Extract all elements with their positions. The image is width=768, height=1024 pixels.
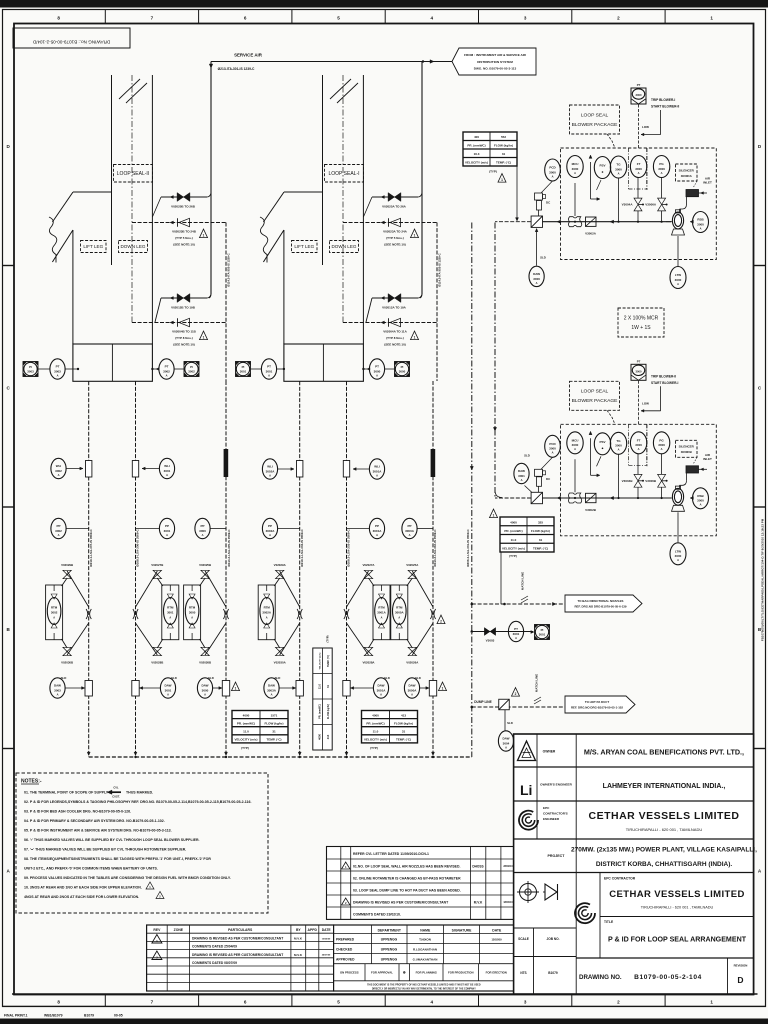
rotated line tag on bypass line I xyxy=(431,449,436,477)
svg-text:INLET: INLET xyxy=(703,181,712,185)
svg-text:SLD: SLD xyxy=(61,676,67,680)
svg-text:3001: 3001 xyxy=(513,632,520,636)
DAW 3001 sample connection xyxy=(132,676,177,696)
aeration line 2 loop seal I xyxy=(343,221,437,224)
svg-text:V02025B TO 26B: V02025B TO 26B xyxy=(171,205,196,209)
svg-text:3000: 3000 xyxy=(572,443,579,447)
svg-text:PROJECT: PROJECT xyxy=(548,854,566,858)
svg-text:3: 3 xyxy=(524,1000,527,1005)
svg-text:FOR PLANNING: FOR PLANNING xyxy=(416,971,437,975)
svg-text:V02023A TO 24A: V02023A TO 24A xyxy=(383,230,408,234)
dump line strainer xyxy=(499,699,510,710)
instrument PP 3000 xyxy=(195,518,210,538)
instrument DAW 3000A xyxy=(404,678,419,698)
svg-text:PSV: PSV xyxy=(599,440,605,444)
svg-text:REVISION: REVISION xyxy=(734,964,748,968)
air supply drop dashed II xyxy=(226,223,231,382)
transmitter sub-box 1 xyxy=(629,148,647,189)
svg-text:TO BAG DIRECTIONAL NOZZLES: TO BAG DIRECTIONAL NOZZLES xyxy=(578,599,624,603)
svg-text:TEMP. (°C): TEMP. (°C) xyxy=(533,547,548,551)
svg-text:V3004B: V3004B xyxy=(622,479,634,483)
flag note 1 row2 II xyxy=(200,229,208,238)
svg-text:COMMENTS DATED 08/07/09: COMMENTS DATED 08/07/09 xyxy=(192,961,237,965)
svg-text:FINAL PRINT.1: FINAL PRINT.1 xyxy=(4,1014,28,1018)
right ruler band xyxy=(754,144,766,874)
instrument FT 3000 2 xyxy=(630,432,646,454)
svg-text:WB1/B1079: WB1/B1079 xyxy=(44,1014,63,1018)
svg-text:01.NO. OF LOOP SEAL WALL AIR N: 01.NO. OF LOOP SEAL WALL AIR NOZZLES HAS… xyxy=(353,864,460,868)
svg-text:SLD: SLD xyxy=(507,721,513,725)
blower level line 1 xyxy=(677,236,679,266)
svg-text:(SEE NOTE:10): (SEE NOTE:10) xyxy=(384,343,406,347)
svg-text:4000: 4000 xyxy=(372,713,379,717)
valve label row1 I xyxy=(382,205,407,209)
flag note 1 at DAW 3000A xyxy=(439,682,447,691)
svg-text:V02030A: V02030A xyxy=(274,661,287,665)
svg-text:08. THE ITEMS/EQUIPMENTS/INSTR: 08. THE ITEMS/EQUIPMENTS/INSTRUMENTS SHA… xyxy=(24,857,211,861)
blower package 2 label leader xyxy=(607,410,615,424)
instrument RSB 3000 2 xyxy=(693,488,709,509)
aeration line 4 loop seal II xyxy=(132,321,226,324)
left ruler band xyxy=(3,144,15,874)
svg-text:PT: PT xyxy=(267,365,271,369)
svg-text:DAW: DAW xyxy=(165,684,172,688)
svg-text:07. '▪▪' THUS MARKED VALVES W: 07. '▪▪' THUS MARKED VALVES WILL BE SUPP… xyxy=(24,848,186,852)
svg-text:(TYP 5 Nos.): (TYP 5 Nos.) xyxy=(386,236,404,240)
svg-text:SERVICE AIR: SERVICE AIR xyxy=(234,53,263,58)
svg-text:ENGINEER: ENGINEER xyxy=(543,817,560,821)
svg-text:3: 3 xyxy=(524,16,527,21)
right margin plot stamp text xyxy=(761,518,765,641)
instrument PI 3003 xyxy=(23,362,38,377)
svg-text:A: A xyxy=(552,174,554,178)
process data table rotated xyxy=(313,635,332,750)
rotameter piping RTM 3001A xyxy=(347,563,376,665)
svg-text:5: 5 xyxy=(337,16,340,21)
svg-text:A: A xyxy=(57,373,59,377)
svg-text:TIRUCHIRAPALLI - 620 001 , TAM: TIRUCHIRAPALLI - 620 001 , TAMILNADU xyxy=(641,906,714,910)
svg-text:A: A xyxy=(618,171,620,175)
svg-text:SLD: SLD xyxy=(524,454,530,458)
svg-text:DAW: DAW xyxy=(409,684,416,688)
svg-text:TIRUCHIRAPALLI - 620 001 , TAM: TIRUCHIRAPALLI - 620 001 , TAMILNADU xyxy=(626,827,703,832)
transmitter sub-box 2 xyxy=(629,424,647,465)
svg-text:(TYP): (TYP) xyxy=(370,746,378,750)
svg-text:V02029B: V02029B xyxy=(61,563,73,567)
drawing number box top-left (rotated) xyxy=(13,28,130,48)
svg-text:PI: PI xyxy=(541,628,544,632)
WLI 3001 connection xyxy=(132,461,159,478)
svg-text:PI: PI xyxy=(190,365,193,369)
lift leg inclined pipe II xyxy=(49,192,112,344)
svg-text:BLOWER PACKAGE: BLOWER PACKAGE xyxy=(572,122,619,128)
PP 3002A connection xyxy=(278,528,300,530)
svg-text:Ø219.1-LSA-304-IS 3569-C: Ø219.1-LSA-304-IS 3569-C xyxy=(300,528,304,566)
svg-text:B1079: B1079 xyxy=(548,971,558,975)
seal air takeoff line xyxy=(471,630,534,633)
svg-text:V02012A TO 19A: V02012A TO 19A xyxy=(382,306,407,310)
air supply drop dashed I xyxy=(437,223,442,382)
svg-text:UPPENGG: UPPENGG xyxy=(381,938,398,942)
top black scan band xyxy=(0,0,768,8)
svg-text:V02029A: V02029A xyxy=(274,563,287,567)
svg-text:FLOW (kg/hr): FLOW (kg/hr) xyxy=(494,144,513,148)
svg-text:Li: Li xyxy=(520,782,532,798)
butterfly valve V3006A xyxy=(645,198,667,211)
air supply drop solid II xyxy=(209,62,211,299)
svg-text:M.V.K: M.V.K xyxy=(474,900,483,904)
loop seal I riser pipe walls xyxy=(323,75,364,344)
flag note 1 row4 I xyxy=(411,331,419,340)
svg-text:V02025B: V02025B xyxy=(199,563,211,567)
instrument DAW package 1 xyxy=(529,266,544,286)
svg-text:TEMP. (°C): TEMP. (°C) xyxy=(327,655,330,667)
svg-text:DRAWING IS REVISED AS PER CUST: DRAWING IS REVISED AS PER CUSTOMER/CONSU… xyxy=(192,953,283,957)
svg-text:LOOP SEAL: LOOP SEAL xyxy=(581,112,609,118)
process data table blower 2 xyxy=(500,517,554,558)
air inlet label 1 xyxy=(703,177,712,185)
rotameter assembly RTM 3002 xyxy=(46,585,63,640)
aeration line 3 loop seal II xyxy=(155,294,211,322)
svg-text:TEMP. (°C): TEMP. (°C) xyxy=(267,738,282,742)
svg-text:CHECKED: CHECKED xyxy=(336,948,353,952)
isolation valve V02025B xyxy=(201,570,209,578)
svg-text:CVL: CVL xyxy=(113,786,119,790)
svg-text:COMMENTS DATED 23/02/10.: COMMENTS DATED 23/02/10. xyxy=(353,912,401,916)
svg-text:TG: TG xyxy=(616,163,621,167)
svg-text:Ø114.3-ITA-302-IS 1239-C: Ø114.3-ITA-302-IS 1239-C xyxy=(438,253,442,286)
instrument DAW 3000 xyxy=(197,678,212,698)
svg-text:3000: 3000 xyxy=(636,93,642,97)
approval table xyxy=(334,925,514,991)
epc contractor row xyxy=(604,877,745,910)
svg-text:A: A xyxy=(376,533,378,537)
blower 2 xyxy=(666,486,693,511)
svg-text:FROM : INSTRUMENT AIR & SERVIC: FROM : INSTRUMENT AIR & SERVICE AIR xyxy=(464,53,527,57)
instrument DAW 3003 xyxy=(50,678,65,698)
svg-text:A: A xyxy=(661,171,663,175)
svg-text:PCD: PCD xyxy=(549,442,556,446)
svg-text:VELOCITY (m/s): VELOCITY (m/s) xyxy=(320,652,322,669)
svg-text:3002A: 3002A xyxy=(262,611,271,615)
instrument TG 3000 2 xyxy=(610,432,626,454)
svg-text:24/07/09: 24/07/09 xyxy=(322,954,331,957)
svg-text:RTM: RTM xyxy=(264,606,271,610)
rotameter assembly RTM 3000 xyxy=(184,585,201,640)
svg-text:DIRECTLY OR INDIRECTLY IN ANY: DIRECTLY OR INDIRECTLY IN ANY WAY DETRIM… xyxy=(372,987,476,990)
svg-text:LOOP SEAL-I: LOOP SEAL-I xyxy=(328,171,359,177)
svg-text:1: 1 xyxy=(493,514,495,518)
svg-text:VELOCITY (m/s): VELOCITY (m/s) xyxy=(235,738,258,742)
instrument PT 3001 right xyxy=(508,621,523,641)
blower interconnection riser xyxy=(493,223,502,498)
trip blower note 1 xyxy=(641,98,679,136)
svg-text:PP: PP xyxy=(268,524,272,528)
svg-text:3003: 3003 xyxy=(54,688,61,692)
svg-text:11.0: 11.0 xyxy=(511,538,517,542)
svg-text:A: A xyxy=(380,692,382,696)
svg-text:5: 5 xyxy=(337,1000,340,1005)
svg-text:02. P & ID FOR LEGENDS,SYMBOLS: 02. P & ID FOR LEGENDS,SYMBOLS & TAGGING… xyxy=(24,800,251,804)
svg-text:A: A xyxy=(552,451,554,455)
svg-text:WLI: WLI xyxy=(374,465,380,469)
svg-text:A: A xyxy=(376,373,378,377)
svg-text:PP: PP xyxy=(56,524,60,528)
svg-text:A: A xyxy=(638,171,640,175)
trip blower note 2 xyxy=(641,374,678,412)
svg-text:3001A: 3001A xyxy=(373,529,383,533)
isolation valve V02029B xyxy=(63,570,71,578)
relief valve PSV 2 xyxy=(589,431,611,476)
rotameter assembly RTM 3001A xyxy=(373,585,390,640)
svg-text:VELOCITY (m/s): VELOCITY (m/s) xyxy=(502,547,525,551)
svg-text:A: A xyxy=(58,533,60,537)
svg-text:3000: 3000 xyxy=(199,529,206,533)
aeration line 4 loop seal I xyxy=(343,321,437,324)
svg-text:3004: 3004 xyxy=(503,741,510,745)
isolation valve V02029A xyxy=(276,570,284,578)
svg-text:DRAWING IS REVISED AS PER CUST: DRAWING IS REVISED AS PER CUSTOMER/CONSU… xyxy=(353,900,449,904)
svg-text:MATCH LINE: MATCH LINE xyxy=(535,674,539,692)
svg-text:V02028A: V02028A xyxy=(362,661,375,665)
svg-text:3000: 3000 xyxy=(572,167,579,171)
dcn revision table xyxy=(327,847,516,920)
svg-text:DATE: DATE xyxy=(322,928,332,932)
svg-text:LOOP SEAL-II: LOOP SEAL-II xyxy=(117,171,149,177)
bottom black scan band xyxy=(0,1019,768,1024)
seal pot drain lines dashed xyxy=(89,381,347,757)
svg-text:V02004B TO 11B: V02004B TO 11B xyxy=(172,330,196,334)
svg-text:3000: 3000 xyxy=(374,369,381,373)
butterfly valve V3004A xyxy=(622,198,644,211)
svg-text:Ø114.3-LSA-305-IS 3569-C: Ø114.3-LSA-305-IS 3569-C xyxy=(227,529,231,567)
svg-text:RTM: RTM xyxy=(378,606,385,610)
svg-text:3001A: 3001A xyxy=(377,611,386,615)
svg-text:A: A xyxy=(677,558,679,562)
svg-text:A: A xyxy=(618,448,620,452)
svg-text:10. 3NOS AT REAR AND 1NO AT EA: 10. 3NOS AT REAR AND 1NO AT EACH SIDE FO… xyxy=(24,886,142,890)
instrument PP 3001A xyxy=(369,518,384,538)
loop seal blower package 2 boundary xyxy=(561,424,717,536)
svg-text:PT: PT xyxy=(375,365,379,369)
svg-text:A: A xyxy=(271,692,273,696)
line break at rotameter RTM 3000A xyxy=(430,609,435,619)
svg-text:PT: PT xyxy=(637,83,641,87)
svg-text:2 X 100% MCR: 2 X 100% MCR xyxy=(624,315,659,321)
svg-text:SLD: SLD xyxy=(540,256,546,260)
svg-text:A: A xyxy=(269,533,271,537)
svg-text:A: A xyxy=(661,447,663,451)
svg-text:VELOCITY (m/s): VELOCITY (m/s) xyxy=(364,738,387,742)
aeration line 1 loop seal I xyxy=(363,193,422,217)
svg-text:RTM: RTM xyxy=(396,606,403,610)
DAW pkg2 connection xyxy=(524,454,532,493)
low signal label 1 xyxy=(639,105,650,149)
banner to bag directional nozzles xyxy=(565,595,642,612)
svg-text:15/06/09: 15/06/09 xyxy=(322,938,331,940)
DAW 3000A sample connection xyxy=(415,676,437,696)
svg-text:R.LOGANATHAN: R.LOGANATHAN xyxy=(413,948,437,952)
instrument DAW 3003A xyxy=(264,678,279,698)
svg-text:FB1079(00)/05/LT/TLG/CETHARPAI: FB1079(00)/05/LT/TLG/CETHARPAID/LPSEAL/A… xyxy=(761,518,765,641)
third angle projection symbol xyxy=(543,884,558,900)
svg-text:EPC: EPC xyxy=(543,806,550,810)
instrument RSB 3000 1 xyxy=(693,212,709,233)
svg-text:DAW: DAW xyxy=(378,684,385,688)
svg-text:A: A xyxy=(204,692,206,696)
valve V02025A xyxy=(388,193,401,202)
svg-text:FLOW (kg/hr): FLOW (kg/hr) xyxy=(394,721,413,725)
svg-text:M.V.K: M.V.K xyxy=(294,937,303,941)
process data table loop seal I xyxy=(362,711,418,751)
svg-text:1571: 1571 xyxy=(271,713,278,717)
isolation valve V02027B xyxy=(153,570,161,578)
check valve V02023A xyxy=(389,218,401,226)
control valve DC 2 xyxy=(535,457,553,492)
svg-text:3002: 3002 xyxy=(51,611,58,615)
svg-text:SLD: SLD xyxy=(384,676,390,680)
svg-text:RTM: RTM xyxy=(51,606,58,610)
valve label row2 I xyxy=(383,230,408,247)
DAW 3004 connection xyxy=(505,710,513,731)
svg-text:V3003: V3003 xyxy=(486,639,495,643)
svg-text:CETHAR VESSELS LIMITED: CETHAR VESSELS LIMITED xyxy=(609,889,744,900)
check valve V3002A xyxy=(575,183,597,236)
svg-text:EPC CONTRACTOR: EPC CONTRACTOR xyxy=(604,877,636,881)
bottom collection header dashed xyxy=(87,752,472,758)
match line lower xyxy=(534,674,541,704)
svg-text:A: A xyxy=(574,171,576,175)
svg-text:00-05: 00-05 xyxy=(114,1014,123,1018)
svg-text:1: 1 xyxy=(235,687,237,691)
svg-text:2: 2 xyxy=(617,1000,620,1005)
svg-text:3001: 3001 xyxy=(240,369,247,373)
instrument PT 3000 mid xyxy=(369,359,384,379)
epc contractor logo spiral xyxy=(575,903,595,923)
svg-text:A: A xyxy=(536,281,538,285)
svg-text:APPROVED: APPROVED xyxy=(336,958,355,962)
svg-text:V02012B TO 19B: V02012B TO 19B xyxy=(171,306,196,310)
svg-text:PT: PT xyxy=(56,365,60,369)
svg-text:V3002A: V3002A xyxy=(585,232,597,236)
svg-text:3000: 3000 xyxy=(697,499,704,503)
svg-text:DOWN LEG: DOWN LEG xyxy=(331,244,356,249)
svg-text:03. LOOP SEAL DUMP LINE TO HOT: 03. LOOP SEAL DUMP LINE TO HOT PA DUCT H… xyxy=(353,888,461,892)
svg-text:4: 4 xyxy=(431,1000,434,1005)
svg-text:LTW: LTW xyxy=(675,549,681,553)
svg-text:01. THE TERMINAL POINT OF SCOP: 01. THE TERMINAL POINT OF SCOPE OF SUPPL… xyxy=(24,791,113,795)
svg-text:(TYP 8 Nos.): (TYP 8 Nos.) xyxy=(175,336,193,340)
svg-text:DATE: DATE xyxy=(492,929,502,933)
svg-text:PR. (mmWC): PR. (mmWC) xyxy=(237,721,255,725)
svg-text:RSB: RSB xyxy=(697,494,704,498)
svg-text:V02026A: V02026A xyxy=(406,661,419,665)
dump line xyxy=(471,700,566,708)
svg-text:(TYP): (TYP) xyxy=(241,746,249,750)
svg-text:MCU: MCU xyxy=(572,162,579,166)
svg-text:SLD: SLD xyxy=(275,676,281,680)
svg-text:09. PROCESS VALUES INDICATED I: 09. PROCESS VALUES INDICATED IN THE TABL… xyxy=(24,876,231,880)
svg-text:RTM: RTM xyxy=(189,606,196,610)
isolation valve V02027A xyxy=(364,570,372,578)
svg-text:3002: 3002 xyxy=(55,529,62,533)
PP 3000A connection xyxy=(417,528,433,530)
instrument PCD 3000B xyxy=(545,435,561,457)
FT tap 1 xyxy=(637,178,639,222)
svg-text:(SEE NOTE:10): (SEE NOTE:10) xyxy=(173,343,195,347)
svg-text:PG: PG xyxy=(659,162,664,166)
instrument WLI 3001 xyxy=(159,458,174,478)
svg-text:A: A xyxy=(191,617,193,620)
instrument PP 3000A xyxy=(402,518,417,538)
svg-text:3003: 3003 xyxy=(54,369,61,373)
blower level line 2 xyxy=(677,512,679,542)
instrument DAW 3004 xyxy=(498,731,513,751)
isolation valve V02025A xyxy=(408,570,416,578)
svg-text:A: A xyxy=(166,533,168,537)
svg-text:UPPENGG: UPPENGG xyxy=(381,958,398,962)
svg-text:PREPARED: PREPARED xyxy=(336,938,355,942)
rotameter piping RTM 3000 xyxy=(199,563,226,665)
line break at rotameter RTM 3002 xyxy=(86,609,91,619)
svg-text:1W + 1S: 1W + 1S xyxy=(631,325,651,331)
svg-text:LTW: LTW xyxy=(675,273,681,277)
rotameter piping RTM 3002 xyxy=(61,563,89,665)
svg-text:3002: 3002 xyxy=(163,369,170,373)
svg-text:PP: PP xyxy=(407,524,411,528)
svg-text:DEPARTMENT: DEPARTMENT xyxy=(378,929,402,933)
svg-text:LOW: LOW xyxy=(642,401,649,405)
svg-text:31: 31 xyxy=(402,730,406,734)
svg-text:4000: 4000 xyxy=(243,713,250,717)
svg-text:V02025A: V02025A xyxy=(406,563,419,567)
bottom margin print stamp xyxy=(4,1014,123,1018)
svg-text:BY: BY xyxy=(296,928,301,932)
svg-text:3000: 3000 xyxy=(202,688,209,692)
svg-text:PP: PP xyxy=(200,524,204,528)
valve V3003 xyxy=(484,628,495,636)
svg-text:3000DA: 3000DA xyxy=(681,174,693,178)
line break at rotameter RTM 3000 xyxy=(223,609,228,619)
svg-text:LOOP SEAL: LOOP SEAL xyxy=(581,389,609,395)
TG tap 2 xyxy=(618,454,620,498)
svg-text:(SEE NOTE:10): (SEE NOTE:10) xyxy=(173,243,195,247)
dump collector riser xyxy=(470,223,473,758)
instrument PI 3000 xyxy=(395,362,410,377)
DAW pkg1 connection xyxy=(535,229,546,266)
svg-text:6: 6 xyxy=(244,16,247,21)
instrument DAW package 2 xyxy=(514,463,529,483)
svg-text:3001: 3001 xyxy=(165,688,172,692)
air supply drop solid I xyxy=(420,62,422,299)
banner to hot pa duct xyxy=(565,696,635,713)
lift leg label II xyxy=(81,241,107,253)
flag note 2 bypass II break xyxy=(0,0,1,1)
loop seal II riser pipe walls xyxy=(112,75,153,344)
svg-text:FOR ERECTION: FOR ERECTION xyxy=(486,971,507,975)
owners engineer row xyxy=(540,783,725,791)
silencer 1 xyxy=(680,181,708,212)
svg-text:PSV: PSV xyxy=(599,164,605,168)
svg-text:INLET: INLET xyxy=(703,457,712,461)
svg-text:3000: 3000 xyxy=(549,447,556,451)
svg-text:TRIP BLOWER-II: TRIP BLOWER-II xyxy=(651,374,676,378)
PT-PI arrow xyxy=(531,631,534,634)
svg-text:(TYP): (TYP) xyxy=(326,635,330,642)
flex joint package 1 xyxy=(569,217,582,227)
svg-text:FT: FT xyxy=(637,162,641,166)
revision history table xyxy=(147,925,334,991)
